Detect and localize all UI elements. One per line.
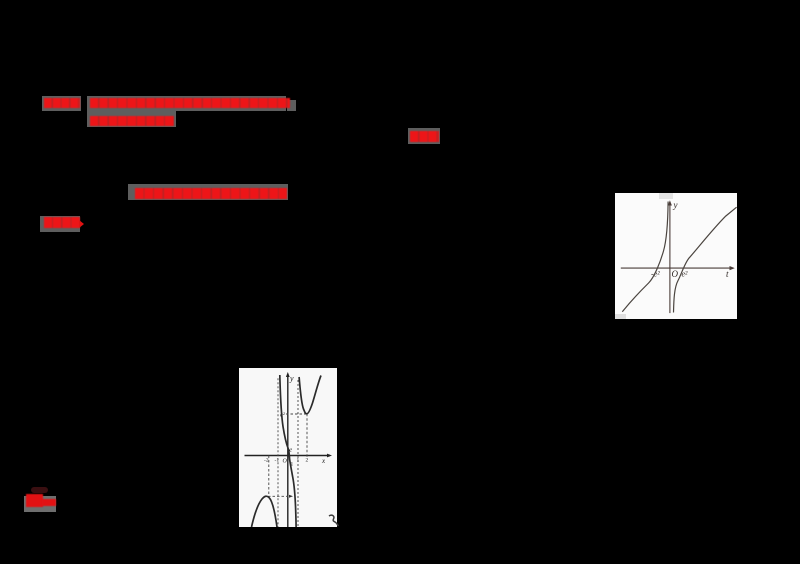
svg-text:2: 2	[305, 458, 308, 464]
highlight box key-sentence	[128, 184, 289, 200]
svg-text:1: 1	[290, 462, 293, 468]
highlight box bottom note	[24, 496, 56, 512]
red text detail-label	[44, 217, 80, 228]
small arrow on dashed line fig2	[289, 495, 293, 498]
svg-text:O: O	[282, 459, 287, 465]
figure 1: graph of y vs t with asymptote at t=0	[615, 193, 737, 319]
U-shaped branch fig2	[299, 376, 321, 414]
highlight box answer-line2	[87, 111, 176, 127]
x-axis arrow fig2	[327, 454, 332, 458]
highlight box answer-line1 tail	[287, 100, 296, 111]
red text bottom note blob2	[42, 499, 56, 506]
svg-text:1: 1	[296, 458, 299, 464]
red text note-right	[410, 131, 439, 142]
scan smudge fig1 bottom-left	[615, 314, 626, 319]
red text key-sentence	[135, 188, 287, 199]
scan smudge fig1 top	[659, 193, 673, 199]
paper background fig2	[239, 368, 337, 527]
dashed line to hill peak fig2	[268, 495, 290, 497]
svg-text:y: y	[289, 374, 294, 383]
dashed asymptote x=1 fig2	[297, 380, 299, 527]
figure 2: graph with asymptotes x=-1 and x=1	[239, 368, 337, 527]
dark red smudge bottom note	[31, 487, 48, 493]
svg-text:-2: -2	[264, 458, 269, 464]
dashed line y=e2 fig2	[286, 413, 307, 415]
svg-text:O: O	[672, 269, 679, 279]
svg-text:-e²: -e²	[651, 269, 660, 278]
y-axis arrow	[668, 200, 672, 205]
t-axis	[621, 267, 733, 269]
scribble mark at fig2 bottom-right edge	[326, 512, 342, 528]
red text answer-label	[44, 98, 80, 109]
highlight box detail-label	[40, 216, 80, 232]
x-axis fig2	[244, 455, 330, 457]
y-axis	[669, 202, 671, 313]
red text answer-line2	[90, 116, 174, 126]
highlight box answer-label	[42, 96, 81, 111]
highlight box note-right	[408, 128, 440, 144]
curve right branch fig1	[674, 207, 737, 312]
red text answer-line1	[90, 98, 290, 109]
y-axis arrow fig2	[285, 372, 289, 377]
middle branch curve fig2	[279, 375, 295, 527]
paper background fig1	[615, 193, 737, 319]
dashed asymptote x=-1 fig2	[277, 378, 279, 527]
svg-text:-1: -1	[274, 458, 279, 464]
highlight box answer-line1	[87, 96, 286, 111]
svg-text:y: y	[673, 200, 678, 210]
y-axis fig2	[286, 374, 288, 527]
dashed line x=-2 fig2	[267, 456, 269, 497]
curve left branch fig1	[622, 201, 668, 311]
red arrow tip detail-label	[79, 220, 84, 228]
hill branch fig2	[251, 496, 277, 527]
dashed line x=2 fig2	[306, 414, 308, 458]
svg-text:e: e	[289, 447, 292, 454]
t-axis arrow	[730, 266, 735, 270]
red text bottom note blob1	[26, 494, 44, 508]
